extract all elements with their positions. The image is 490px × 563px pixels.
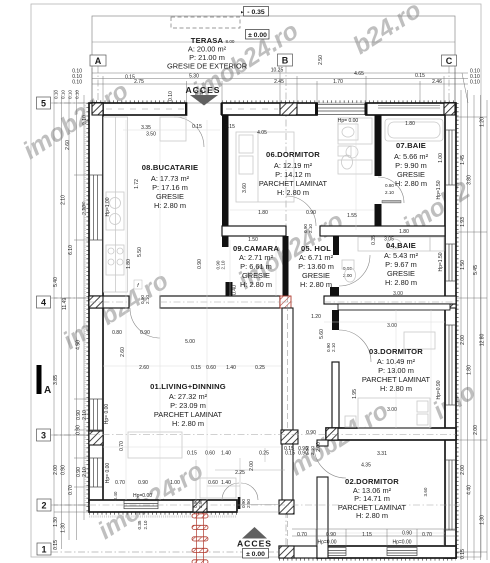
svg-text:3.60: 3.60 bbox=[423, 487, 428, 496]
right dimension lines bbox=[456, 90, 487, 560]
svg-text:4.05: 4.05 bbox=[257, 130, 267, 136]
misc small labels bbox=[62, 298, 152, 499]
svg-text:ACCES: ACCES bbox=[185, 85, 220, 95]
svg-text:2.10: 2.10 bbox=[331, 343, 336, 352]
bottom wall living bbox=[89, 500, 237, 512]
svg-text:2.10: 2.10 bbox=[82, 410, 88, 420]
svg-text:1.80: 1.80 bbox=[126, 259, 132, 269]
room label 05.HOL bbox=[298, 244, 334, 289]
svg-text:0.90: 0.90 bbox=[402, 531, 412, 537]
svg-text:0.10: 0.10 bbox=[54, 90, 59, 99]
left dimension numbers rotated bbox=[53, 115, 88, 550]
living interior dimension row bbox=[115, 365, 265, 486]
furniture kitchen counter bbox=[104, 117, 187, 292]
svg-text:3.00: 3.00 bbox=[387, 323, 397, 329]
svg-text:4.35: 4.35 bbox=[361, 463, 371, 469]
wall V6 lower bbox=[282, 444, 293, 500]
room label 03.DORMITOR bbox=[362, 323, 431, 413]
svg-text:0.35: 0.35 bbox=[137, 520, 142, 529]
svg-text:P: 6.61 m: P: 6.61 m bbox=[240, 262, 272, 271]
red drain chain bbox=[192, 513, 208, 563]
pier hatch bottom living bbox=[193, 500, 207, 512]
svg-text:2.60: 2.60 bbox=[120, 347, 126, 357]
extra construction lines bottom bbox=[196, 448, 285, 500]
svg-text:2.50: 2.50 bbox=[318, 55, 324, 65]
svg-text:1: 1 bbox=[41, 545, 46, 555]
gray plinth strips bbox=[85, 103, 237, 517]
exterior wall top bbox=[92, 103, 455, 115]
svg-text:5.00: 5.00 bbox=[185, 339, 195, 345]
svg-text:02.DORMITOR: 02.DORMITOR bbox=[345, 477, 399, 486]
svg-text:B: B bbox=[282, 56, 289, 66]
interior wall H2 kitchen bottom bbox=[89, 296, 129, 308]
dorm02 door text bbox=[305, 446, 315, 455]
svg-text:2.00: 2.00 bbox=[249, 461, 255, 471]
interior wall V2 camara|hol bbox=[283, 236, 289, 297]
svg-text:5.30: 5.30 bbox=[189, 74, 199, 80]
svg-text:2.10: 2.10 bbox=[221, 260, 226, 269]
svg-text:0.90: 0.90 bbox=[140, 330, 150, 336]
svg-text:H: 2.80 m: H: 2.80 m bbox=[172, 419, 204, 428]
pier hatch top-left A bbox=[92, 103, 103, 115]
bottom wall dorm02 bbox=[317, 546, 456, 558]
svg-text:A: 5.43 m²: A: 5.43 m² bbox=[384, 251, 419, 260]
svg-text:P: 17.16 m: P: 17.16 m bbox=[152, 183, 188, 192]
furniture baie07 bbox=[338, 119, 443, 169]
interior wall V5 corridor|dorm03 bbox=[332, 310, 339, 330]
svg-text:4.65: 4.65 bbox=[354, 71, 364, 77]
svg-text:0.70: 0.70 bbox=[422, 532, 432, 538]
svg-text:0.90: 0.90 bbox=[61, 465, 67, 475]
svg-text:6.10: 6.10 bbox=[68, 245, 74, 255]
svg-text:0.90: 0.90 bbox=[298, 446, 308, 452]
svg-text:11.49: 11.49 bbox=[62, 298, 68, 310]
svg-text:0.70: 0.70 bbox=[297, 532, 307, 538]
svg-text:1.30: 1.30 bbox=[480, 515, 486, 525]
baie07 door arc bbox=[378, 177, 404, 203]
svg-text:4.40: 4.40 bbox=[467, 485, 473, 495]
pier hatch repaint corners bbox=[92, 103, 455, 115]
top rooms interior dims bbox=[141, 118, 415, 320]
pier hatch top B bbox=[280, 103, 297, 115]
room label 08.BUCATARIE bbox=[142, 163, 199, 210]
svg-text:0.60: 0.60 bbox=[206, 365, 216, 371]
section marker A bbox=[37, 365, 52, 396]
svg-text:A: 10.49 m²: A: 10.49 m² bbox=[377, 357, 416, 366]
svg-text:H: 2.80 m: H: 2.80 m bbox=[380, 384, 412, 393]
svg-text:3.00: 3.00 bbox=[393, 291, 403, 297]
svg-text:07.BAIE: 07.BAIE bbox=[396, 141, 426, 150]
top wall window baie07 bbox=[378, 106, 440, 109]
svg-text:H: 2.80 m: H: 2.80 m bbox=[385, 278, 417, 287]
interior wall V4 hol|baie04 bbox=[333, 236, 339, 255]
svg-text:2.15: 2.15 bbox=[225, 124, 235, 130]
svg-text:05. HOL: 05. HOL bbox=[301, 244, 331, 253]
svg-text:0.10: 0.10 bbox=[470, 80, 480, 86]
svg-text:1.40: 1.40 bbox=[221, 480, 231, 486]
svg-text:3.00: 3.00 bbox=[387, 407, 397, 413]
pier hatch left grid4 repaint bbox=[89, 296, 103, 308]
corridor wall dorm02 lower bbox=[317, 477, 328, 558]
svg-text:A: A bbox=[95, 56, 102, 66]
svg-text:3.85: 3.85 bbox=[53, 375, 59, 385]
svg-text:0.15: 0.15 bbox=[192, 124, 202, 130]
exterior insulation tick strips bbox=[88, 102, 458, 560]
svg-text:H: 2.80 m: H: 2.80 m bbox=[154, 201, 186, 210]
left grid bubbles 5,4,3,2,1 bbox=[37, 97, 52, 555]
bottom dimension numbers dorm02 bbox=[297, 531, 432, 546]
left wall window kitchen bbox=[90, 175, 103, 240]
svg-text:2.75: 2.75 bbox=[134, 79, 144, 85]
svg-text:1.30: 1.30 bbox=[53, 517, 59, 527]
rotated interior dims bbox=[76, 55, 444, 483]
pier hatch V6 mid bbox=[281, 430, 298, 444]
svg-text:A: 17.73 m²: A: 17.73 m² bbox=[151, 174, 190, 183]
terasa slab outline bbox=[92, 16, 455, 103]
svg-text:0.40: 0.40 bbox=[232, 285, 238, 295]
svg-text:Hp=0.00: Hp=0.00 bbox=[133, 493, 152, 499]
svg-text:0.10: 0.10 bbox=[68, 90, 73, 99]
svg-text:3.35: 3.35 bbox=[141, 125, 151, 131]
pier hatch porch south bbox=[279, 546, 294, 558]
furniture dorm06 bed bbox=[236, 118, 372, 202]
V1 stub below camara door bbox=[226, 282, 233, 297]
acces bottom level box bbox=[243, 549, 269, 559]
svg-text:0.80: 0.80 bbox=[112, 330, 122, 336]
grid axis lines vertical bbox=[98, 66, 449, 561]
acces bottom triangle bbox=[242, 527, 267, 539]
svg-text:C: C bbox=[446, 56, 453, 66]
svg-text:1.20: 1.20 bbox=[311, 314, 321, 320]
svg-text:GRESIE: GRESIE bbox=[302, 271, 330, 280]
svg-text:1.95: 1.95 bbox=[352, 389, 358, 399]
left wall window living1 bbox=[90, 399, 103, 430]
svg-text:H: 2.80 m: H: 2.80 m bbox=[395, 179, 427, 188]
interior wall H1 dorm06 bottom / baie top bbox=[222, 226, 286, 236]
svg-text:1.20: 1.20 bbox=[480, 117, 486, 127]
top window jambs bbox=[315, 103, 368, 115]
svg-text:1.80: 1.80 bbox=[258, 210, 268, 216]
svg-text:4: 4 bbox=[41, 298, 46, 308]
svg-text:0.25: 0.25 bbox=[255, 365, 265, 371]
svg-text:1.72: 1.72 bbox=[134, 179, 140, 189]
svg-text:H: 2.80 m: H: 2.80 m bbox=[277, 188, 309, 197]
svg-text:0.15: 0.15 bbox=[460, 549, 466, 559]
svg-text:1.93: 1.93 bbox=[460, 217, 466, 227]
svg-text:0.40: 0.40 bbox=[113, 491, 118, 500]
svg-text:A: 12.19 m²: A: 12.19 m² bbox=[274, 161, 313, 170]
porch south wall bbox=[279, 546, 317, 558]
svg-text:P: 13.60 m: P: 13.60 m bbox=[298, 262, 334, 271]
baie04 door arc bbox=[339, 255, 370, 286]
right dimension numbers rotated bbox=[460, 117, 486, 559]
svg-text:1.45: 1.45 bbox=[460, 155, 466, 165]
svg-text:0.10: 0.10 bbox=[168, 91, 174, 101]
dorm03 door text bbox=[326, 343, 336, 352]
svg-text:Hp=0.00: Hp=0.00 bbox=[317, 540, 336, 546]
hol door jamb text bbox=[303, 224, 313, 233]
svg-text:1.80: 1.80 bbox=[467, 365, 473, 375]
dorm03 corridor dims bbox=[284, 446, 387, 469]
svg-text:P: 14.12 m: P: 14.12 m bbox=[275, 170, 311, 179]
svg-text:4.50: 4.50 bbox=[76, 340, 82, 350]
svg-text:2.10: 2.10 bbox=[145, 295, 150, 304]
svg-text:P: 23.09 m: P: 23.09 m bbox=[170, 401, 206, 410]
pier hatch left grid4 bbox=[89, 296, 103, 308]
svg-text:2.50: 2.50 bbox=[246, 499, 251, 508]
svg-text:0.70: 0.70 bbox=[115, 480, 125, 486]
svg-text:0.90: 0.90 bbox=[306, 210, 316, 216]
room label 06.DORMITOR bbox=[259, 150, 328, 197]
svg-text:06.DORMITOR: 06.DORMITOR bbox=[266, 150, 320, 159]
pier hatch right bottom bbox=[445, 546, 456, 558]
porch double door arcs at living south bbox=[222, 483, 258, 500]
furniture dorm03 bbox=[345, 332, 435, 428]
baie04 door text bbox=[343, 266, 352, 278]
svg-text:0.15: 0.15 bbox=[284, 446, 294, 452]
svg-text:10.25: 10.25 bbox=[271, 68, 284, 74]
svg-text:2.50: 2.50 bbox=[198, 499, 203, 508]
svg-text:0.15: 0.15 bbox=[53, 540, 59, 550]
svg-text:1.00: 1.00 bbox=[170, 480, 180, 486]
svg-text:0.70: 0.70 bbox=[119, 441, 125, 451]
svg-text:Hp= 0.00: Hp= 0.00 bbox=[338, 118, 359, 124]
top wall window dorm06 bbox=[317, 105, 366, 115]
grid bubble C bbox=[442, 55, 457, 66]
room label 02.DORMITOR bbox=[338, 477, 407, 520]
svg-text:A: 5.66 m²: A: 5.66 m² bbox=[394, 152, 429, 161]
svg-text:0.35: 0.35 bbox=[371, 235, 377, 245]
svg-text:PARCHET LAMINAT: PARCHET LAMINAT bbox=[154, 410, 223, 419]
pier hatch top-right C bbox=[444, 103, 455, 115]
red pier B axis bbox=[280, 296, 291, 308]
kitchen door text bbox=[140, 295, 150, 304]
svg-text:Hp=0.90: Hp=0.90 bbox=[436, 380, 442, 399]
svg-text:2.00: 2.00 bbox=[53, 465, 59, 475]
svg-text:5.45: 5.45 bbox=[473, 265, 479, 275]
svg-text:2.00: 2.00 bbox=[460, 465, 466, 475]
kitchen door arc bbox=[130, 308, 160, 338]
svg-text:Hp=1.00: Hp=1.00 bbox=[105, 197, 111, 216]
svg-text:2.10: 2.10 bbox=[308, 224, 313, 233]
right wall window dorm03 bbox=[446, 325, 456, 405]
svg-text:1.50: 1.50 bbox=[248, 237, 258, 243]
svg-text:3.50: 3.50 bbox=[146, 132, 156, 138]
top entrance door jambs bbox=[185, 103, 223, 115]
svg-text:0.90: 0.90 bbox=[326, 532, 336, 538]
svg-text:0.25: 0.25 bbox=[259, 451, 269, 457]
grid bubble B bbox=[278, 54, 293, 66]
svg-text:08.BUCATARIE: 08.BUCATARIE bbox=[142, 163, 199, 172]
svg-text:3.80: 3.80 bbox=[467, 175, 473, 185]
svg-text:2.10: 2.10 bbox=[310, 446, 315, 455]
wall V6 living|porch upper bbox=[282, 308, 293, 430]
right wall window baie07 bbox=[446, 130, 456, 185]
porch door jamb bbox=[238, 497, 241, 509]
svg-text:A: A bbox=[44, 385, 51, 396]
svg-text:P: 13.00 m: P: 13.00 m bbox=[378, 366, 414, 375]
svg-text:1.50: 1.50 bbox=[460, 260, 466, 270]
svg-text:12.80: 12.80 bbox=[480, 334, 486, 347]
svg-text:GRESIE: GRESIE bbox=[242, 271, 270, 280]
porch door labels bbox=[193, 499, 251, 508]
svg-text:5.50: 5.50 bbox=[137, 247, 143, 257]
svg-text:3.05: 3.05 bbox=[384, 237, 394, 243]
top entrance door arc bbox=[174, 117, 204, 147]
svg-text:0.10: 0.10 bbox=[72, 80, 82, 86]
svg-text:2.00: 2.00 bbox=[316, 442, 322, 452]
top dimension numbers bbox=[72, 68, 480, 86]
svg-text:5.40: 5.40 bbox=[53, 277, 59, 287]
svg-text:1.80: 1.80 bbox=[405, 121, 415, 127]
corridor wall dorm02 upper stub bbox=[317, 440, 328, 446]
axis lines across plan bbox=[89, 302, 460, 505]
baie07 door text bbox=[385, 183, 394, 195]
svg-text:Hp=1.50: Hp=1.50 bbox=[438, 252, 444, 271]
furniture living table bbox=[128, 432, 236, 498]
svg-text:3.60: 3.60 bbox=[242, 183, 248, 193]
svg-text:Hp= 0.00: Hp= 0.00 bbox=[105, 463, 111, 484]
right wall window dorm02 bbox=[446, 460, 456, 530]
terasa step line bbox=[92, 41, 455, 43]
svg-text:0.90: 0.90 bbox=[306, 430, 316, 436]
svg-text:2.10: 2.10 bbox=[61, 195, 67, 205]
svg-text:2.46: 2.46 bbox=[432, 79, 442, 85]
room label 07.BAIE bbox=[394, 141, 429, 188]
svg-text:2.10: 2.10 bbox=[82, 467, 88, 477]
svg-text:1.55: 1.55 bbox=[347, 213, 357, 219]
room label 04.BAIE bbox=[384, 237, 419, 298]
svg-text:2.00: 2.00 bbox=[460, 335, 466, 345]
svg-text:PARCHET LAMINAT: PARCHET LAMINAT bbox=[362, 375, 431, 384]
svg-text:1.70: 1.70 bbox=[333, 79, 343, 85]
svg-text:H: 2.80 m: H: 2.80 m bbox=[356, 511, 388, 520]
svg-text:1.40: 1.40 bbox=[221, 451, 231, 457]
V3 stub bbox=[375, 204, 382, 226]
svg-text:03.DORMITOR: 03.DORMITOR bbox=[369, 347, 423, 356]
svg-text:P: 9.90 m: P: 9.90 m bbox=[395, 161, 427, 170]
svg-text:2.00: 2.00 bbox=[473, 425, 479, 435]
svg-text:Hp=1.50: Hp=1.50 bbox=[436, 180, 442, 199]
svg-text:H: 2.80 m: H: 2.80 m bbox=[300, 280, 332, 289]
canopy dashed rect bbox=[171, 17, 240, 28]
svg-text:01.LIVING+DINNING: 01.LIVING+DINNING bbox=[150, 382, 226, 391]
svg-text:0.15: 0.15 bbox=[191, 365, 201, 371]
dorm02 bottom window2 bbox=[387, 548, 417, 556]
svg-text:0.60: 0.60 bbox=[205, 451, 215, 457]
room label 01.LIVING+DINNING bbox=[150, 382, 226, 428]
dorm03 door arc bbox=[339, 330, 371, 362]
svg-text:ACCES: ACCES bbox=[237, 539, 272, 549]
baie07 door leaf bbox=[382, 201, 401, 203]
svg-text:0.60: 0.60 bbox=[208, 480, 218, 486]
dorm03 top wall lower lip bbox=[338, 304, 450, 310]
svg-text:8.00: 8.00 bbox=[226, 39, 235, 44]
V6 centerline dashed bbox=[287, 296, 289, 546]
svg-text:09.CAMARA: 09.CAMARA bbox=[233, 244, 279, 253]
left wall window living2 bbox=[90, 458, 103, 487]
exterior wall right bbox=[445, 103, 456, 558]
interior wall V3 dorm06|baie07 bbox=[375, 115, 382, 176]
dorm03 bottom wall bbox=[326, 428, 456, 440]
exterior wall left bbox=[89, 103, 103, 501]
svg-text:A: 6.71 m²: A: 6.71 m² bbox=[299, 253, 334, 262]
svg-text:0.90: 0.90 bbox=[197, 259, 203, 269]
svg-text:± 0.00: ± 0.00 bbox=[248, 32, 267, 39]
svg-text:± 0.00: ± 0.00 bbox=[246, 551, 265, 558]
right wall window baie04 bbox=[446, 244, 456, 281]
interior wall V1 kitchen|dorm06 bbox=[222, 115, 229, 247]
svg-text:1.30: 1.30 bbox=[61, 523, 67, 533]
svg-text:GRESIE DE EXTERIOR: GRESIE DE EXTERIOR bbox=[167, 62, 247, 71]
porch door arc from hall bbox=[314, 446, 346, 478]
svg-text:1.40: 1.40 bbox=[226, 365, 236, 371]
svg-text:1.00: 1.00 bbox=[438, 153, 444, 163]
svg-text:0.15: 0.15 bbox=[415, 73, 425, 79]
svg-text:GRESIE: GRESIE bbox=[156, 192, 184, 201]
svg-text:0.15: 0.15 bbox=[187, 451, 197, 457]
svg-text:Hp=0.00: Hp=0.00 bbox=[392, 540, 411, 546]
pier hatch right grid4 bbox=[445, 296, 456, 308]
room label 09.CAMARA bbox=[233, 244, 279, 289]
svg-text:Hp= 0.00: Hp= 0.00 bbox=[104, 404, 110, 425]
svg-text:A: 2.71 m²: A: 2.71 m² bbox=[239, 253, 274, 262]
svg-text:2.25: 2.25 bbox=[235, 470, 245, 476]
dorm03 top wall upper bbox=[324, 296, 456, 304]
svg-text:2.10: 2.10 bbox=[143, 520, 148, 529]
svg-text:3.31: 3.31 bbox=[377, 451, 387, 457]
svg-text:0.10: 0.10 bbox=[75, 90, 80, 99]
svg-text:GRESIE: GRESIE bbox=[387, 269, 415, 278]
pier hatch left grid3 bbox=[89, 431, 103, 445]
svg-text:1.15: 1.15 bbox=[362, 532, 372, 538]
level box +0.00 top bbox=[246, 30, 270, 40]
top dimension lines bbox=[92, 68, 468, 103]
svg-text:0.80: 0.80 bbox=[385, 183, 394, 188]
svg-text:- 0.35: - 0.35 bbox=[247, 9, 265, 16]
svg-text:H: 2.80 m: H: 2.80 m bbox=[240, 280, 272, 289]
svg-text:5.60: 5.60 bbox=[319, 329, 325, 339]
bottom wall living window bbox=[124, 501, 158, 509]
top wall inner dashes bbox=[106, 108, 278, 110]
svg-text:5: 5 bbox=[41, 99, 46, 109]
svg-text:A: 27.32 m²: A: 27.32 m² bbox=[169, 392, 208, 401]
svg-text:GRESIE: GRESIE bbox=[397, 170, 425, 179]
svg-text:2.60: 2.60 bbox=[65, 140, 71, 150]
acces top triangle bbox=[190, 95, 218, 106]
svg-text:PARCHET LAMINAT: PARCHET LAMINAT bbox=[259, 179, 328, 188]
room label TERASA bbox=[167, 36, 247, 71]
left dimension lines bbox=[54, 90, 92, 549]
furniture baie04 bbox=[342, 237, 444, 282]
svg-text:P: 14.71 m: P: 14.71 m bbox=[354, 494, 390, 503]
pier hatch dorm03 bottom-left bbox=[326, 428, 338, 440]
pier hatch V6 bottom bbox=[279, 500, 294, 514]
svg-text:1.80: 1.80 bbox=[399, 229, 409, 235]
camara door jamb text bbox=[216, 260, 226, 269]
dorm02 bottom window1 bbox=[316, 548, 346, 556]
svg-text:0.10: 0.10 bbox=[61, 90, 66, 99]
svg-text:2: 2 bbox=[41, 501, 46, 511]
svg-text:0.90: 0.90 bbox=[138, 480, 148, 486]
svg-text:2.60: 2.60 bbox=[139, 365, 149, 371]
bottom dimension lines right part bbox=[292, 520, 456, 546]
level box -0.35 bbox=[241, 7, 269, 17]
svg-text:P: 9.67 m: P: 9.67 m bbox=[385, 260, 417, 269]
grid axis lines horizontal bbox=[51, 103, 461, 552]
svg-text:2.10: 2.10 bbox=[385, 190, 394, 195]
faint construction lines bbox=[103, 120, 445, 533]
